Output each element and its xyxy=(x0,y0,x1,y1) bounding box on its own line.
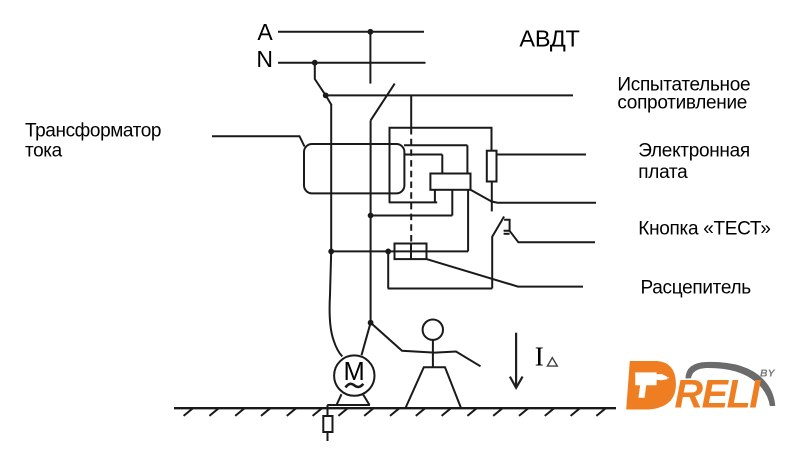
wire earth electrode xyxy=(327,405,329,416)
motor stand right leg xyxy=(363,395,369,405)
wire N pole down through transformer xyxy=(330,105,332,252)
wire transformer left lead xyxy=(212,136,305,146)
svg-text:RELI: RELI xyxy=(675,373,762,417)
wire test button to pointer xyxy=(510,231,595,243)
wire coil top-right lead xyxy=(466,145,468,173)
svg-text:Электронная: Электронная xyxy=(638,141,750,162)
wire A drop to switch contact xyxy=(369,32,371,84)
person skirt xyxy=(406,367,462,408)
wire neutral bus N xyxy=(278,62,426,64)
logo swoosh xyxy=(686,362,776,406)
node junction dot test winding xyxy=(385,249,391,255)
wire A pole down through transformer xyxy=(370,120,372,322)
motor base plate xyxy=(327,404,370,406)
symbol delta triangle xyxy=(547,358,557,367)
svg-text:тока: тока xyxy=(25,141,63,162)
wire coil middle lead rail xyxy=(371,215,453,217)
test winding block xyxy=(395,244,427,260)
node junction dot A pole at middle rail xyxy=(368,213,374,219)
test winding divider xyxy=(410,244,412,260)
svg-text:BY: BY xyxy=(760,368,776,380)
wire coil top-left lead xyxy=(441,155,443,174)
ground line xyxy=(174,407,616,409)
logo drill silhouette xyxy=(635,372,667,397)
wire board loop left and top xyxy=(390,128,492,203)
person right arm xyxy=(433,352,481,367)
wire mechanical linkage solid part xyxy=(410,95,412,128)
wire touching person arm xyxy=(371,323,433,353)
wire release coil bottom-left lead xyxy=(434,190,436,203)
ground hatching xyxy=(184,408,606,416)
wire N jog xyxy=(326,95,332,105)
wire phase bus A xyxy=(278,31,424,33)
wire A pole to motor xyxy=(362,323,371,356)
pointer line electronic board xyxy=(497,154,587,156)
resistor earth resistance xyxy=(323,416,332,432)
wire test return rail xyxy=(388,288,493,290)
switch blade A pole xyxy=(371,84,395,121)
logo dreli.by xyxy=(626,361,775,417)
test button actuator bar xyxy=(504,233,510,235)
wire mechanical linkage dashed xyxy=(410,128,412,244)
wire earth electrode tail xyxy=(327,432,329,441)
svg-text:Трансформатор: Трансформатор xyxy=(25,121,161,142)
wire test winding drop xyxy=(387,251,389,288)
wire N pole to motor xyxy=(330,251,343,356)
svg-text:A: A xyxy=(257,19,273,45)
logo letter D xyxy=(626,361,676,410)
motor M circle xyxy=(334,355,374,395)
relay release coil K1 xyxy=(430,174,470,190)
person body xyxy=(432,340,434,367)
node junction dot A pole lower xyxy=(368,320,374,326)
wire transformer secondary lead 1 xyxy=(404,144,467,146)
motor tilde xyxy=(346,384,364,388)
svg-text:сопротивление: сопротивление xyxy=(617,92,747,113)
pointer line test button xyxy=(492,202,596,203)
test button actuator bracket xyxy=(504,220,510,231)
wire release coil right lead xyxy=(467,190,469,252)
wire coil corner to test contact xyxy=(471,190,493,202)
svg-text:M: M xyxy=(343,358,364,386)
wire test circuit top rail xyxy=(326,94,573,96)
svg-text:АВДТ: АВДТ xyxy=(519,25,579,51)
wire release pointer diagonal xyxy=(427,259,584,287)
switch blade N pole xyxy=(315,63,326,96)
svg-text:плата: плата xyxy=(638,162,688,183)
current transformer T1 core xyxy=(304,144,404,193)
node junction dot on A bus xyxy=(368,29,374,35)
wire resistor bottom lead test contact xyxy=(491,182,493,212)
logo drill tip xyxy=(667,377,669,379)
node junction dot N pole lower xyxy=(328,249,334,255)
svg-text:I: I xyxy=(535,342,544,372)
svg-text:Расцепитель: Расцепитель xyxy=(641,278,752,299)
wire transformer secondary lead 2 xyxy=(405,154,443,156)
wire coil middle lead riser xyxy=(451,190,453,216)
arrow leakage current xyxy=(510,333,523,388)
wire lower rail to test winding xyxy=(331,250,468,252)
node junction dot N blade foot xyxy=(323,93,329,99)
person head xyxy=(423,320,443,340)
svg-text:N: N xyxy=(256,46,273,72)
svg-text:Кнопка «ТЕСТ»: Кнопка «ТЕСТ» xyxy=(638,218,770,239)
motor stand left leg xyxy=(337,394,342,405)
switch blade test button xyxy=(492,217,504,289)
resistor R test xyxy=(487,151,497,182)
node junction dot on N bus xyxy=(312,60,318,66)
wire board bottom left xyxy=(389,201,438,203)
